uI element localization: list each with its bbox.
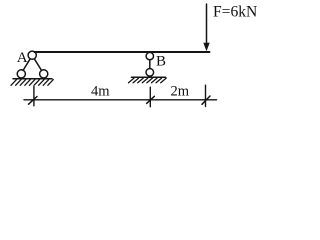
support B link	[149, 60, 151, 69]
svg-text:B: B	[156, 54, 166, 70]
hatching at B	[129, 78, 167, 83]
ground line at A	[13, 78, 52, 80]
extension line under F	[205, 85, 207, 106]
support A pin circle	[28, 51, 36, 59]
svg-text:4m: 4m	[91, 83, 110, 99]
support A right leg	[34, 59, 41, 71]
support B bottom circle	[146, 69, 154, 77]
dimension slash at F tick	[202, 96, 210, 104]
ground line at B	[131, 76, 165, 78]
beam AB	[35, 51, 210, 53]
force F line	[206, 4, 208, 44]
support A left leg	[23, 59, 30, 71]
support A right roller circle	[40, 70, 48, 78]
svg-text:2m: 2m	[171, 83, 190, 99]
dimension slash at A tick	[29, 97, 38, 105]
dimension slash at B tick	[147, 96, 155, 103]
hatching at A	[11, 80, 53, 86]
svg-text:F=6kN: F=6kN	[213, 3, 257, 20]
support A left roller circle	[17, 70, 25, 78]
force F arrowhead	[203, 43, 209, 52]
dimension line	[24, 99, 217, 101]
support B top circle	[146, 52, 153, 59]
svg-text:A: A	[17, 50, 28, 66]
extension line under A	[33, 87, 35, 106]
extension line under B	[149, 87, 151, 107]
